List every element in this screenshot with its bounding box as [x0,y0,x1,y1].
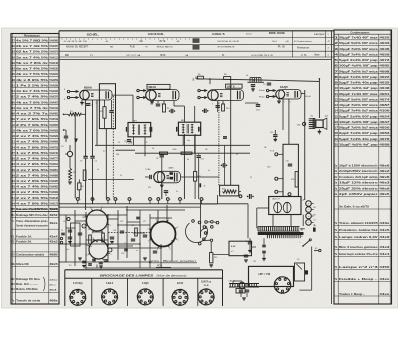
oscillator tube circle B2 [89,240,108,259]
jack circles column [306,201,312,207]
bus drops [209,79,211,84]
output transformer primary [309,118,315,120]
small caps under T1 [127,139,131,141]
small resistor 2 on lower bus [181,152,192,154]
cluster trimmer circles [82,224,86,228]
B3 wires up [157,210,159,222]
input terminals V4 [266,89,268,91]
resistor R11 [194,172,197,182]
resistor R8 on bus [224,77,231,80]
heater transformer 6,3V box [229,241,252,256]
resistor R5b [83,170,86,180]
boxed resistor R13 [220,185,239,196]
wire to switch [311,247,313,253]
switch S2 contacts [314,250,316,252]
switch out wire [206,232,208,234]
tube V4 6AQ5 output [279,90,301,99]
wire grid drop [85,100,87,156]
wire [96,100,98,145]
cap blob in filter box [305,270,308,274]
long wire left [74,112,76,198]
decoupling caps [83,155,87,157]
mains cap pair [262,244,266,246]
filter box around switch cap [295,263,305,281]
caps ground left cluster [244,254,248,256]
bottom bus 2 [59,206,201,208]
cluster grounds [68,241,72,243]
small resistor on lower bus [160,152,168,154]
terminal PuB [275,153,278,156]
capacitor C2 [109,110,113,112]
resistor R2 [103,107,106,119]
rectifier tube box [269,197,301,215]
tube V1 6BA6 RF amp [83,90,112,100]
+248V bus [95,144,250,146]
bottom strip with teeth [229,283,259,285]
screen bus wire [196,79,319,82]
converter cluster wires [85,212,87,268]
tuning link dashed to gang [108,232,150,234]
cluster junction dots [85,214,87,216]
17ohm tap cap [256,104,260,106]
field verticals [105,129,107,199]
bottom bus 1 [59,203,248,205]
cluster extra caps [61,232,65,234]
ground under divider [68,181,72,183]
tube V3 6AT6 detector [211,90,243,101]
IF transformer T2 [178,122,200,135]
coil L4 network [247,81,264,83]
cathode cap dumbbell [170,109,172,113]
arrow on left wire [74,139,78,143]
wave switch arc B4 [185,223,207,242]
padder caps [68,229,72,231]
converter tube circle B1 [87,210,108,231]
speaker HP [316,120,323,128]
T1 side tuning caps [125,127,127,132]
header dark cells [193,38,200,43]
HP output box [249,266,294,286]
brochage cell dividers [91,278,93,306]
cathode cap under V1 [86,103,90,105]
V5 inner electrode blobs [170,172,173,175]
input terminals V2 [137,89,139,91]
oscillator box around V1 output [99,84,115,129]
cap with ground left of switches [248,241,252,243]
wire [230,80,232,186]
cluster extra stubs [59,214,66,216]
wires below T2 [182,135,184,145]
tuning gang circle B3 [151,222,176,247]
bus into bottom right [247,204,249,238]
bus segment 2 [135,152,250,154]
cluster outline box [71,223,81,246]
wires bottom right [297,264,303,270]
terminals [275,177,278,180]
wire y=179.4 [88,178,134,180]
S-curve wire [200,228,207,236]
extra caps under B2 [82,260,86,262]
tube V2 6BA6 IF amp [149,90,179,101]
link circles right of B4 [205,221,208,224]
left terminal circles [60,237,62,239]
input terminals V3 [198,89,200,91]
header legend column [292,31,294,57]
wire strip to jack [300,228,305,230]
wire R15 to box [213,254,229,256]
resistor R6 on bus [198,76,204,79]
ground under speaker [318,129,320,131]
brochage title bar [65,269,223,271]
lower left-table rows [11,211,59,213]
cathode network V2 [151,100,153,103]
wire plate to transformer [318,79,320,118]
wires to box [288,99,290,144]
cap C20 [288,163,292,165]
divider resistor [69,168,72,180]
wire V1 plate to T1 [112,94,133,96]
grid cap C12 [149,175,151,179]
caps below strip [239,289,243,291]
solid bar [258,232,303,234]
AVC dashed line [218,100,220,186]
cap on AVC wire [222,163,224,167]
cap pair under V3 [223,136,227,138]
cap mid 2 [197,155,201,157]
bus segment [116,149,136,151]
wire V2 plate to T2 [173,101,175,106]
header ruler ticks [61,38,63,39]
cap 4n on wire [198,183,200,187]
grid stopper cap [267,82,271,84]
wire segment [224,145,226,163]
right parts table Condensateurs [334,30,392,304]
comb strip [266,234,302,236]
resistor R15 [210,253,213,263]
wire down from terminal [200,200,202,238]
switch contact o-dot [202,240,204,242]
V3 cathode parts [203,109,205,113]
wire into T2 secondary [194,106,196,122]
V5 plate wire [181,176,219,178]
tube V5 6AV6 AF [157,171,180,183]
wire screen drop [92,100,94,156]
AGC resistor R1 [63,114,65,116]
cap and ground above box [274,130,276,134]
wire V4 plate link [301,93,305,95]
ground under V4 [278,99,280,101]
wires below T1 [133,137,135,146]
antenna input terminals [67,90,69,92]
V5 cathode network [161,183,163,199]
ground under R15 [209,264,213,266]
pilot lamp right of brochage [239,282,245,288]
terminal circles row [76,198,79,201]
cap C14 blob [248,194,250,199]
switch S1 [302,245,304,247]
trimmer cap C5 [64,135,68,137]
top title block [59,30,334,32]
terminal circle right of R13 [239,195,242,198]
L wire at 217.5 [201,203,218,205]
T2 side tuning caps [176,127,178,132]
TR mark near strip [313,228,316,232]
loop wire left of rectifier [257,207,269,209]
output socket B5 [274,277,290,293]
power supply box [283,144,298,196]
cap mid 1 [160,154,164,156]
vertical wire to output transformer [304,90,306,200]
resistor R16 [295,172,298,187]
volume potentiometer P1 [67,151,72,156]
mains strip hatched [257,226,259,231]
trimmer resistors [89,235,92,244]
rectifier to strip wires [272,215,274,227]
schematic frame borders [59,59,332,61]
IF transformer T1 [128,123,151,137]
left parts table Resistances [11,34,59,305]
resistor R5 [78,183,81,190]
ground below V1 [81,100,83,103]
